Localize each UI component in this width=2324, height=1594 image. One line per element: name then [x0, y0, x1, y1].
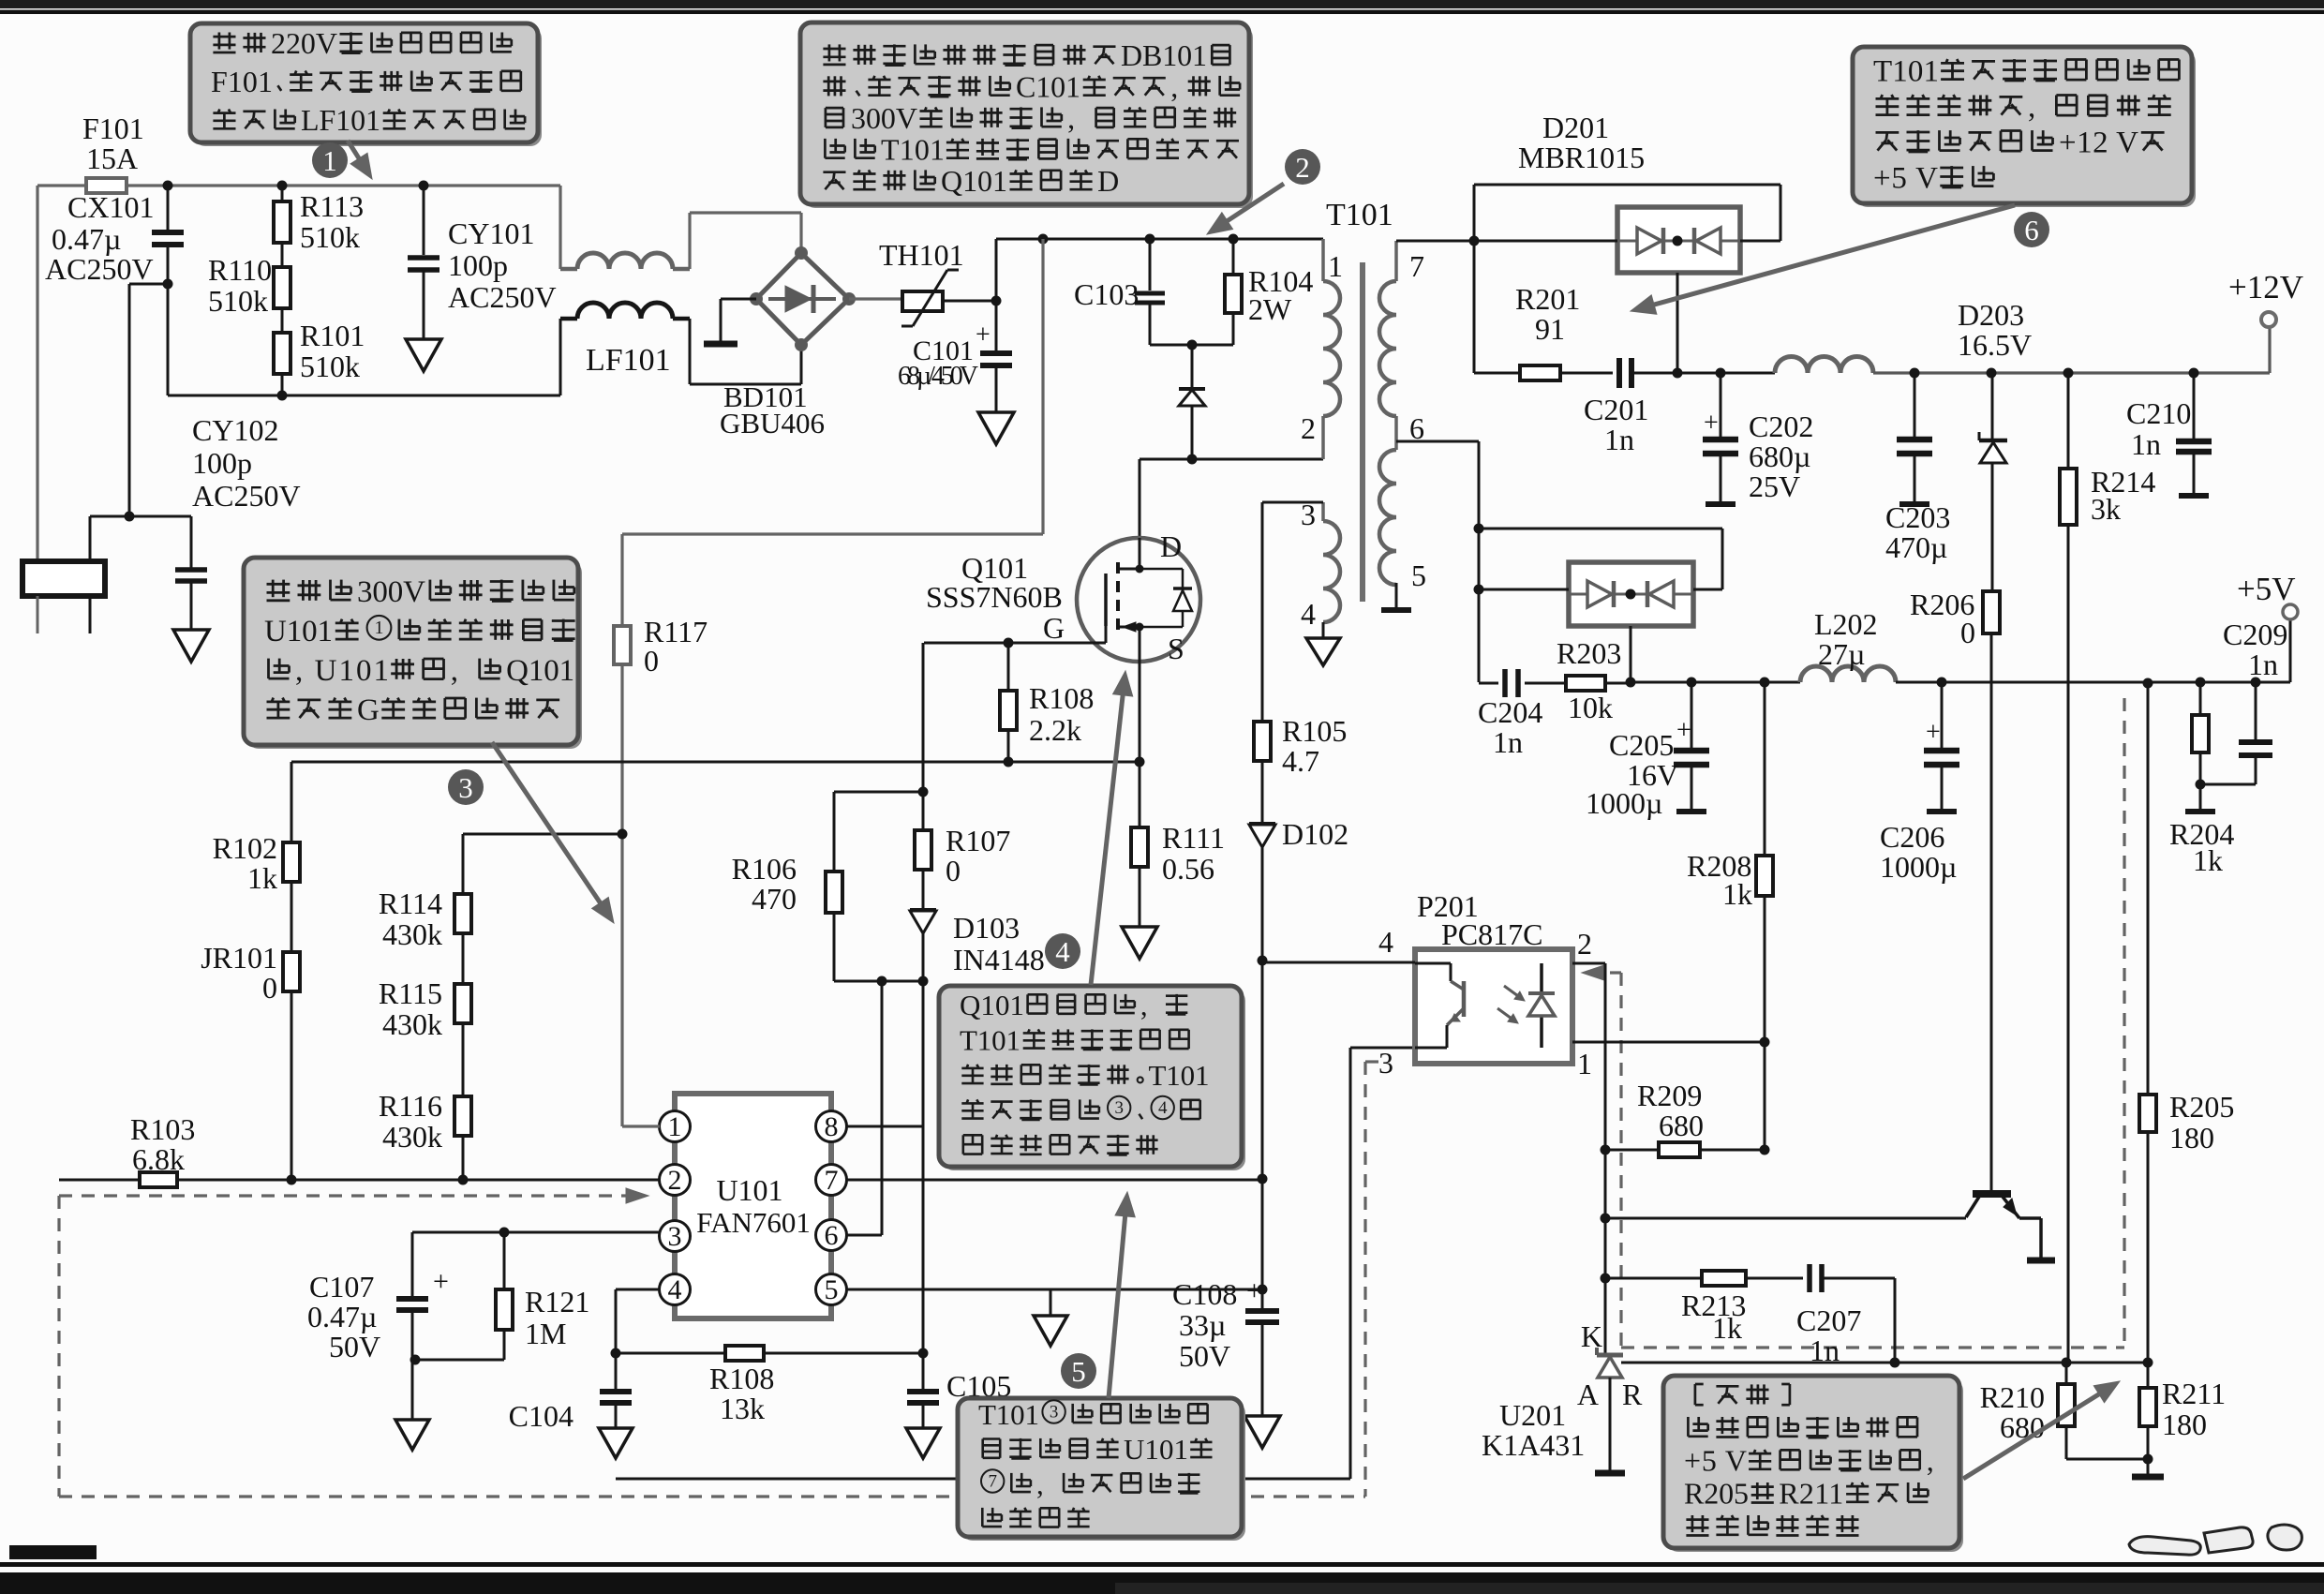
svg-text:0: 0 — [1960, 616, 1975, 649]
svg-text:6.8k: 6.8k — [132, 1142, 185, 1176]
resistor R101 — [281, 308, 284, 333]
svg-text:100p: 100p — [448, 248, 508, 282]
transformer T101 secondary winding 6-5 — [1379, 450, 1396, 585]
ground C101 — [978, 412, 1014, 444]
svg-text:AC250V: AC250V — [192, 479, 301, 513]
wire T101 pin7 output — [1396, 240, 1474, 243]
svg-text:C209: C209 — [2223, 618, 2287, 651]
svg-text:D: D — [1160, 529, 1182, 563]
svg-text:C201: C201 — [1584, 393, 1648, 426]
svg-text:,: , — [1170, 70, 1178, 104]
svg-text:C203: C203 — [1885, 500, 1950, 534]
U101 pin 7 — [816, 1165, 847, 1196]
svg-text:R101: R101 — [300, 319, 365, 352]
svg-text:4: 4 — [1158, 1098, 1168, 1118]
svg-text:2: 2 — [668, 1165, 682, 1196]
numbered marker 6 — [2014, 212, 2049, 247]
wire D201 center tap — [1676, 273, 1679, 373]
resistor R208 1k — [1764, 682, 1766, 856]
terminal +5V — [2289, 618, 2292, 682]
resistor R103 — [140, 1172, 177, 1187]
wire node to U101 pin6 — [881, 981, 884, 1235]
svg-text:7: 7 — [988, 1472, 997, 1492]
svg-text:470: 470 — [752, 882, 797, 916]
svg-text:27µ: 27µ — [1818, 637, 1865, 671]
callout note 4 box — [943, 990, 1245, 1170]
ground C105 — [906, 1428, 940, 1458]
U101 pin 5 — [816, 1274, 847, 1305]
resistor R107 — [922, 643, 925, 792]
ground Q201 emitter — [2027, 1258, 2055, 1264]
svg-text:U101: U101 — [264, 615, 333, 648]
svg-text:Q101: Q101 — [506, 654, 574, 688]
diode D103 IN4148 — [922, 870, 925, 910]
wire D202 upper input — [1479, 528, 1722, 530]
optocoupler P201 PC817C body — [1415, 949, 1572, 1064]
svg-text:T101: T101 — [960, 1023, 1020, 1056]
ground U101 pin5 — [1034, 1316, 1067, 1346]
wire TH101 to C101 node — [943, 300, 996, 303]
wire HV 300V rail — [996, 238, 1323, 241]
svg-text:C205: C205 — [1609, 728, 1674, 762]
svg-text:U101: U101 — [1124, 1433, 1188, 1466]
svg-text:6: 6 — [2024, 214, 2039, 246]
svg-text:430k: 430k — [382, 1007, 442, 1041]
svg-text:CY101: CY101 — [448, 216, 534, 250]
wire U101 pin7 to C108 node — [846, 1179, 1262, 1182]
svg-text:4: 4 — [1301, 597, 1316, 631]
svg-text:C202: C202 — [1749, 410, 1813, 443]
numbered marker 2 — [1285, 149, 1320, 185]
resistor R206 0 — [1983, 591, 2000, 633]
resistor R201 91 — [1474, 372, 1520, 375]
transformer T101 primary winding 1-2 — [1321, 239, 1325, 281]
wire D201 bypass loop — [1473, 185, 1476, 241]
svg-text:R110: R110 — [208, 253, 272, 287]
ground R111 — [1122, 927, 1157, 959]
svg-text:TH101: TH101 — [879, 238, 964, 272]
wire T101 pin3 to R105 — [1262, 501, 1323, 504]
capacitor C107 — [396, 1296, 428, 1302]
numbered marker 5 — [1061, 1353, 1096, 1389]
svg-text:F101: F101 — [211, 65, 273, 98]
svg-text:K: K — [1581, 1319, 1602, 1353]
svg-text:+: + — [433, 1266, 449, 1297]
svg-text:3: 3 — [1050, 1403, 1059, 1423]
svg-text:+: + — [1926, 718, 1941, 747]
svg-text:L202: L202 — [1814, 607, 1878, 641]
wire gate-drive bottom node — [833, 913, 836, 981]
svg-text:220V: 220V — [271, 26, 337, 60]
inductor L202 27u (gray) — [1800, 666, 1896, 682]
U101 pin 2 — [660, 1165, 691, 1196]
svg-text:PC817C: PC817C — [1441, 917, 1542, 951]
transformer T101 core — [1360, 262, 1365, 602]
svg-text:R108: R108 — [709, 1362, 774, 1395]
svg-text:G: G — [357, 693, 380, 727]
capacitor C105 — [922, 1353, 925, 1389]
svg-text:15A: 15A — [86, 142, 138, 175]
svg-text:0.56: 0.56 — [1162, 852, 1214, 886]
svg-text:3: 3 — [1114, 1098, 1124, 1118]
svg-text:7: 7 — [1409, 249, 1424, 283]
U101 pin 8 — [816, 1111, 847, 1142]
svg-text:25V: 25V — [1749, 469, 1800, 503]
wire C101 node to HV rail — [995, 239, 998, 301]
callout note 1 box — [194, 27, 542, 146]
wire R210 R211 sampling node — [2065, 1363, 2068, 1384]
wire U101 pin3 comp net — [412, 1231, 660, 1234]
svg-text:R107: R107 — [946, 824, 1010, 857]
callout note 3 box — [247, 561, 582, 749]
svg-text:R108: R108 — [1029, 681, 1094, 715]
svg-text:G: G — [1043, 611, 1065, 645]
resistor R214 3k — [2067, 373, 2070, 469]
U101 pin 3 — [660, 1221, 691, 1252]
svg-text:R121: R121 — [525, 1285, 589, 1318]
terminal bar T101 pin5 — [1395, 583, 1398, 608]
svg-text:1: 1 — [1577, 1047, 1592, 1080]
bridge rectifier BD101 — [756, 253, 849, 345]
svg-text:C207: C207 — [1796, 1304, 1861, 1337]
svg-text:1M: 1M — [525, 1317, 566, 1350]
dashed feedback loop U101 — [59, 1194, 633, 1197]
svg-text:U201: U201 — [1499, 1398, 1566, 1432]
svg-text:0.47µ: 0.47µ — [307, 1300, 377, 1333]
resistor R211 180 — [2139, 1388, 2156, 1426]
svg-text:U101: U101 — [716, 1173, 782, 1207]
callout note 2 box — [804, 26, 1253, 208]
svg-text:0: 0 — [262, 971, 277, 1005]
capacitor CY101 — [423, 186, 425, 255]
svg-text:+: + — [1704, 409, 1719, 438]
svg-text:680µ: 680µ — [1749, 439, 1810, 473]
wire P201 pin1 — [1572, 1041, 1765, 1044]
wire +5V rail — [1631, 681, 1800, 684]
svg-text:T101: T101 — [881, 133, 945, 167]
wire R114 chain top — [463, 833, 622, 836]
svg-text:,: , — [1067, 101, 1075, 135]
wire startup rail R102 — [291, 761, 1140, 764]
svg-text:+12 V: +12 V — [2059, 126, 2138, 159]
wire Q101 gate — [924, 642, 1106, 645]
resistor R106 — [833, 792, 836, 871]
svg-text:MBR1015: MBR1015 — [1518, 141, 1645, 174]
svg-text:Q101: Q101 — [960, 989, 1024, 1021]
svg-text:R210: R210 — [1980, 1380, 2045, 1414]
svg-text:C204: C204 — [1478, 695, 1542, 729]
svg-text:IN4148: IN4148 — [953, 943, 1045, 976]
svg-text:R116: R116 — [379, 1089, 442, 1123]
svg-text:C206: C206 — [1880, 820, 1944, 854]
svg-text:1000µ: 1000µ — [1880, 850, 1957, 884]
svg-text:180: 180 — [2162, 1408, 2207, 1441]
wire CX101 branch — [89, 516, 92, 561]
svg-text:13k: 13k — [720, 1392, 765, 1425]
svg-text:0.47µ: 0.47µ — [52, 222, 121, 256]
wire CX101 to bottom rail — [167, 284, 170, 395]
svg-text:1n: 1n — [1493, 725, 1523, 759]
wire LF101 to bridge bottom — [689, 319, 692, 384]
resistor R102 — [283, 842, 300, 882]
svg-text:180: 180 — [2169, 1121, 2214, 1155]
svg-text:510k: 510k — [300, 220, 360, 254]
thermistor TH101 — [849, 297, 902, 300]
svg-text:R114: R114 — [379, 886, 442, 920]
svg-text:DB101: DB101 — [1121, 38, 1207, 72]
svg-text:,: , — [2028, 90, 2035, 124]
svg-text:+5V: +5V — [2237, 571, 2296, 607]
capacitor CY102 — [175, 567, 207, 573]
svg-text:+5 V: +5 V — [1873, 161, 1938, 195]
svg-text:3: 3 — [1378, 1046, 1393, 1080]
svg-text:R106: R106 — [732, 852, 797, 886]
inductor LF101 bottom winding — [560, 317, 577, 321]
ground U201 anode — [1595, 1470, 1625, 1477]
arrow from note 2 — [1228, 184, 1284, 221]
ground at bridge left vertex — [721, 298, 756, 301]
svg-text:4: 4 — [1378, 925, 1393, 959]
wire LF101 to bridge top (gray) — [688, 213, 691, 269]
svg-text:1n: 1n — [1604, 423, 1634, 456]
decorative chalk marks bottom right — [2129, 1525, 2302, 1555]
svg-text:FAN7601: FAN7601 — [696, 1206, 811, 1239]
callout note 6 box — [1856, 51, 2196, 207]
svg-text:C101: C101 — [1016, 70, 1080, 104]
capacitor C204 1n snubber — [1502, 669, 1508, 697]
arrow from note 6 — [1654, 205, 2015, 305]
ground CY102 — [173, 630, 209, 662]
svg-text:5: 5 — [1411, 559, 1426, 592]
wire U201 cathode net — [1604, 1150, 1607, 1353]
wire feedback return bottom — [616, 1478, 1350, 1481]
svg-text:7: 7 — [825, 1165, 839, 1196]
numbered marker 4 — [1045, 933, 1080, 969]
IC U101 FAN7601 body — [675, 1094, 831, 1318]
svg-text:LF101: LF101 — [301, 103, 380, 137]
svg-text:430k: 430k — [382, 917, 442, 951]
capacitor C202 680u 25V — [1720, 373, 1722, 437]
resistor R121 1M — [496, 1289, 513, 1330]
ground C108 — [1244, 1416, 1280, 1448]
capacitor C201 1n — [1560, 372, 1613, 375]
callout note: explanation box — [1667, 1379, 1963, 1552]
numbered marker 3 — [448, 769, 484, 805]
wire +12V rail — [1677, 372, 1775, 375]
svg-text:1k: 1k — [1722, 877, 1752, 911]
svg-text:1k: 1k — [2193, 843, 2223, 877]
svg-text:K1A431: K1A431 — [1482, 1428, 1585, 1462]
diode D101 snubber — [1191, 345, 1194, 389]
svg-text:3: 3 — [458, 771, 473, 804]
svg-text:1: 1 — [375, 618, 384, 638]
wire R201 snubber branch — [1473, 241, 1476, 373]
svg-text:1000µ: 1000µ — [1586, 786, 1662, 820]
svg-text:10k: 10k — [1568, 691, 1613, 724]
svg-text:2: 2 — [1577, 927, 1592, 961]
ground sampling divider — [2132, 1474, 2164, 1481]
diode pack D201 MBR1015 — [1617, 207, 1740, 273]
callout note 5 box — [961, 1402, 1245, 1541]
svg-text:D103: D103 — [953, 911, 1020, 945]
ground CY101 — [406, 339, 441, 371]
wire pin2 down to R209 node — [1604, 1042, 1607, 1150]
wire source line — [1139, 662, 1141, 762]
wire P201 pin4 — [1262, 961, 1415, 964]
svg-text:T101: T101 — [978, 1398, 1039, 1431]
arrow from explanation note — [1963, 1394, 2099, 1479]
resistor R104 — [1232, 239, 1235, 275]
svg-text:C210: C210 — [2126, 396, 2191, 430]
svg-text:AC250V: AC250V — [45, 252, 154, 286]
resistor R213 1k — [1605, 1277, 1702, 1280]
inductor L201 (gray) — [1775, 357, 1873, 374]
svg-text:510k: 510k — [300, 350, 360, 383]
svg-text:F101: F101 — [82, 112, 144, 145]
wire AC input top (gray) — [37, 184, 560, 186]
wire +5V rail right — [1896, 681, 2290, 684]
wire startup drop to R117 (gray) — [1041, 239, 1044, 534]
wire U101 pin5 and local ground — [846, 1289, 1262, 1291]
resistor R209 680 — [1605, 1149, 1659, 1152]
svg-text:R211: R211 — [1779, 1477, 1843, 1511]
svg-text:2: 2 — [1295, 151, 1310, 184]
AC plug inlet — [22, 561, 105, 596]
resistor JR101 — [290, 882, 293, 952]
svg-text:1k: 1k — [1712, 1311, 1742, 1345]
resistor R204 1k — [2199, 682, 2202, 715]
svg-text:1n: 1n — [2248, 648, 2278, 681]
svg-text:JR101: JR101 — [201, 941, 277, 975]
svg-text:CX101: CX101 — [67, 190, 154, 224]
resistor R113 — [281, 186, 284, 201]
capacitor C205 1000u 16V — [1691, 682, 1693, 748]
P201 phototransistor — [1415, 962, 1451, 965]
svg-text:,: , — [451, 654, 458, 688]
svg-text:,: , — [1927, 1444, 1934, 1478]
svg-text:4: 4 — [668, 1274, 682, 1305]
wire U101 pin1 stub (gray) — [622, 1125, 660, 1127]
capacitor C209 1n — [2255, 682, 2257, 739]
svg-text:430k: 430k — [382, 1120, 442, 1154]
wire R208 node to R209 — [1764, 1042, 1766, 1150]
svg-text:91: 91 — [1535, 312, 1565, 346]
svg-text:C104: C104 — [509, 1399, 574, 1433]
svg-text:470µ: 470µ — [1885, 530, 1947, 564]
svg-text:2W: 2W — [1248, 292, 1292, 326]
resistor R108b 13k timing — [616, 1352, 725, 1355]
svg-text:R111: R111 — [1162, 821, 1225, 855]
wire base drive to Q201 — [1605, 1217, 1966, 1220]
svg-text:+: + — [1676, 716, 1691, 745]
capacitor CX101 — [167, 186, 170, 230]
wire U101 pin6 stub — [846, 1234, 882, 1237]
svg-text:R203: R203 — [1557, 636, 1621, 670]
svg-text:2: 2 — [1301, 411, 1316, 445]
resistor R111 0.56 — [1139, 762, 1141, 827]
diode D102 — [1261, 761, 1264, 824]
diode pack D202 — [1569, 562, 1693, 626]
capacitor C103 — [1149, 239, 1152, 290]
svg-text:+12V: +12V — [2228, 269, 2303, 305]
svg-text:16.5V: 16.5V — [1958, 328, 2032, 362]
resistor R114 — [454, 894, 471, 933]
numbered marker 1 — [312, 142, 348, 178]
ground T101 pin4 — [1322, 622, 1325, 638]
svg-text:C103: C103 — [1074, 277, 1139, 311]
wire node to U101 pin8 and C105 — [922, 981, 925, 1353]
fuse F101 — [86, 178, 127, 193]
svg-text:R201: R201 — [1515, 282, 1580, 316]
transformer T101 secondary winding 7-6 — [1394, 241, 1398, 281]
wire U101 pin2 net — [59, 1179, 140, 1182]
transistor Q201 — [1990, 1173, 1993, 1191]
svg-text:R115: R115 — [379, 976, 442, 1010]
svg-text:,: , — [1140, 989, 1148, 1021]
wire P201 pin2 — [1572, 962, 1605, 965]
svg-text:C107: C107 — [309, 1270, 374, 1304]
ground C107 — [395, 1420, 429, 1450]
svg-text:68µ/450V: 68µ/450V — [898, 362, 978, 391]
wire U101 pin4 net — [616, 1289, 660, 1291]
svg-text:5: 5 — [825, 1274, 839, 1305]
wire U201 reference — [1621, 1362, 2148, 1364]
svg-text:3: 3 — [668, 1221, 682, 1252]
dashed feedback loop U201 to P201 — [1587, 971, 1621, 974]
resistor R210 680 — [2058, 1384, 2075, 1426]
wire T101 pin6 output — [1396, 440, 1479, 443]
wire U101 pin8 stub — [846, 1125, 923, 1128]
svg-text:50V: 50V — [329, 1330, 380, 1363]
resistor R110 — [281, 243, 284, 267]
resistor R203 10k — [1566, 676, 1605, 691]
svg-text:Q101: Q101 — [941, 164, 1007, 198]
svg-text:300V: 300V — [357, 575, 425, 609]
ground C104 — [599, 1428, 633, 1458]
svg-text:S: S — [1168, 632, 1184, 665]
svg-text:3k: 3k — [2091, 492, 2121, 526]
svg-text:T101: T101 — [1149, 1059, 1210, 1092]
capacitor C108 — [1245, 1308, 1279, 1314]
svg-text:0: 0 — [644, 644, 659, 678]
wire D202 center tap — [1630, 626, 1632, 682]
resistor R205 180 — [2139, 1095, 2156, 1132]
svg-text:D102: D102 — [1282, 817, 1348, 851]
U101 pin 4 — [660, 1274, 691, 1305]
svg-text:1: 1 — [322, 144, 337, 177]
svg-text:,: , — [1036, 1467, 1044, 1500]
svg-text:AC250V: AC250V — [448, 280, 557, 314]
svg-text:100p: 100p — [192, 446, 252, 480]
svg-text:R: R — [1622, 1378, 1643, 1411]
svg-text:C108: C108 — [1172, 1277, 1237, 1311]
terminal +12V — [2268, 327, 2271, 373]
svg-text:R205: R205 — [1684, 1477, 1749, 1511]
svg-text:D201: D201 — [1542, 111, 1609, 144]
svg-text:D: D — [1097, 164, 1119, 198]
transistor Q101 SSS7N60B — [1077, 538, 1200, 662]
svg-text:1: 1 — [1328, 249, 1343, 283]
svg-text:D203: D203 — [1958, 298, 2024, 332]
svg-text:, U101: , U101 — [295, 654, 389, 688]
svg-text:8: 8 — [825, 1111, 839, 1142]
wire D102 node down to C108 — [1261, 961, 1264, 1289]
svg-text:GBU406: GBU406 — [720, 407, 825, 439]
svg-text:300V: 300V — [851, 101, 917, 135]
wire EMI bottom rail — [168, 395, 560, 397]
capacitor C210 1n — [2193, 373, 2196, 439]
svg-text:R211: R211 — [2162, 1377, 2226, 1410]
